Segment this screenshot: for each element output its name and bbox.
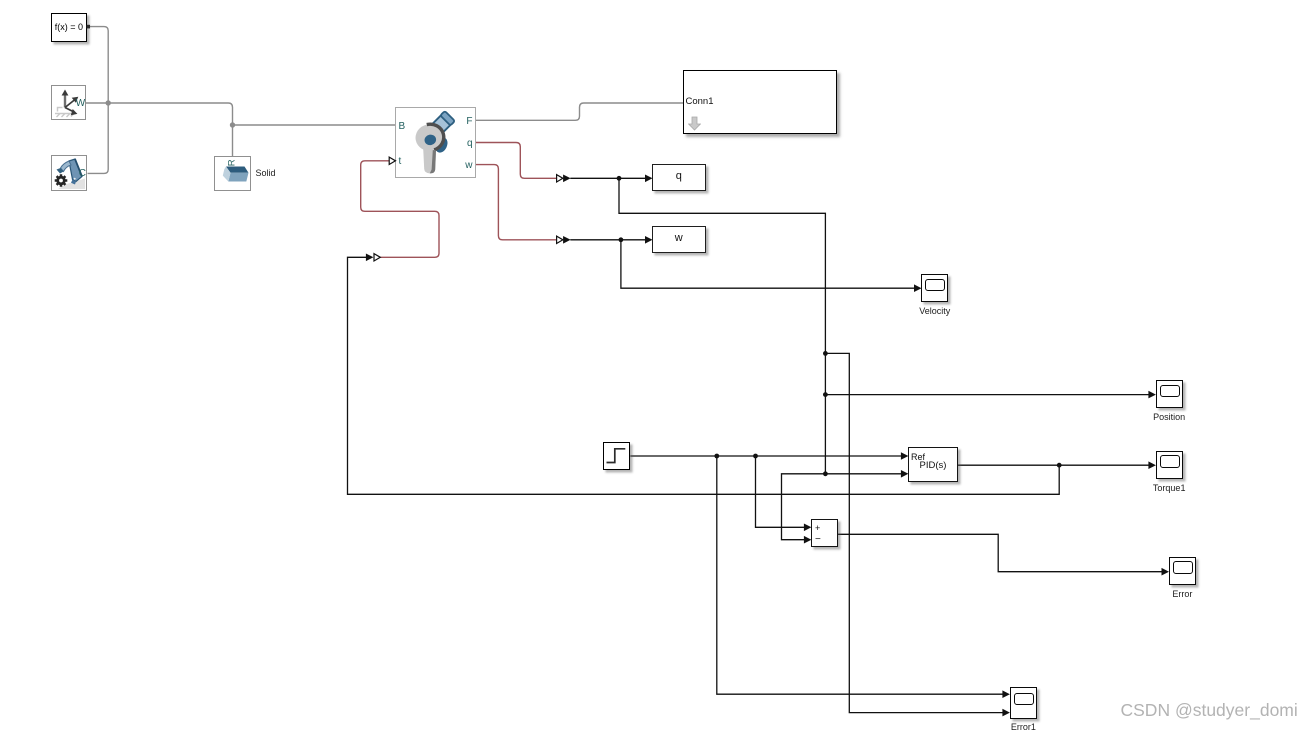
wire: q junction down, right, down the long vertical x825 (619, 178, 825, 474)
port label: W (76, 99, 85, 109)
wire: PID output to Torque1 scope (958, 464, 1150, 466)
junction: gray dot above Solid (230, 122, 235, 127)
label: minus sign (815, 534, 821, 545)
wire: q converter to q goto block (570, 177, 646, 179)
arrowhead: into Velocity scope (914, 284, 922, 292)
label: Torque1 (1153, 483, 1186, 493)
converter: open triangle on w line (PS side) (557, 236, 563, 243)
arrowhead: into PID lower input (901, 470, 909, 478)
wire: sum output to Error scope (838, 534, 1163, 571)
junction: q line dot (617, 176, 622, 181)
block: q goto tag (652, 164, 706, 191)
junction: step line dot 2 (753, 454, 758, 459)
junction: gray dot on world frame line (106, 100, 111, 105)
block: World Frame (51, 85, 86, 120)
wire: solver config to mechanism config vertical (gray physical net) (88, 27, 109, 174)
block: Step source (603, 442, 630, 469)
wire: branch to revolute joint B port (233, 124, 396, 126)
arrowhead: into Error1 lower input (1002, 709, 1010, 717)
arrowhead: PS-to-simulink converter filled arrow on w line (563, 236, 571, 244)
label: Error1 (1011, 722, 1036, 730)
port label: R (rotated) (228, 159, 238, 166)
arrowhead: into q block (645, 175, 653, 183)
label: plus sign (815, 523, 820, 533)
block: Conn1 subsystem (683, 70, 837, 134)
block: PID(s) controller (908, 447, 958, 482)
port label: w (465, 161, 472, 171)
junction: x825 branch dot upper (823, 351, 828, 356)
block: w goto tag (652, 226, 706, 253)
arrowhead: simulink-to-PS converter filled arrow on torque line (366, 253, 374, 261)
icon: gray down arrow (688, 116, 701, 131)
arrowhead: into PID Ref input (901, 452, 909, 460)
port label: q (467, 139, 473, 149)
junction: x825 branch dot to Position (823, 392, 828, 397)
block: Error scope (1169, 557, 1196, 585)
arrowhead: into w block (645, 236, 653, 244)
arrowhead: into sum minus input (804, 536, 812, 544)
label: PID(s) (909, 460, 957, 471)
label: Conn1 port name (686, 96, 714, 107)
wire: red PS torque line from converter to joint t port (361, 161, 439, 257)
block: Torque1 scope (1156, 451, 1183, 479)
label: Position (1153, 412, 1185, 422)
port label: C (79, 169, 86, 179)
block: Position scope (1156, 380, 1183, 408)
wire: world frame W to junction and down to Solid R port (86, 103, 233, 156)
junction: step line dot 1 (714, 454, 719, 459)
block: Error1 scope (two inputs) (1010, 687, 1037, 719)
wire: feedback to PID lower input and sum minus input (782, 474, 903, 540)
label: Error (1172, 589, 1192, 599)
arrowhead: into Error1 upper input (1002, 690, 1010, 698)
label: Velocity (919, 306, 950, 316)
wire: joint w output red PS line to converter (476, 165, 557, 240)
wire: branch to Position scope (825, 394, 1150, 396)
block: Solid (214, 156, 251, 191)
port nub: solver configuration right conserving port (85, 23, 93, 31)
junction: x825 end dot at feedback line (823, 471, 828, 476)
wire: PID output feedback loop to torque converter (348, 257, 1060, 494)
port label: t (399, 157, 402, 167)
label: Solid (255, 168, 275, 178)
port label: F (466, 117, 472, 127)
wire: step output to PID Ref input (630, 455, 903, 457)
wire: step branch down to sum plus input (756, 456, 806, 527)
wire: step branch down to Error1 upper input (717, 456, 1004, 694)
block: Solver Configuration f(x)=0 (51, 13, 87, 42)
wire: w junction down to Velocity scope (621, 240, 916, 288)
port marker: open triangle at joint t input (386, 154, 398, 167)
converter: open triangle on q line (PS side) (557, 175, 563, 182)
junction: PID output branch dot (1057, 463, 1062, 468)
block: Sum (+/-) (811, 519, 838, 547)
watermark: CSDN (1121, 700, 1298, 721)
label: Ref input name (911, 452, 925, 462)
wire: branch right then long drop x849 to Error1 lower input (825, 353, 1004, 712)
arrowhead: into Torque1 scope (1148, 461, 1156, 469)
converter: open triangle on torque line (PS side) (374, 254, 380, 261)
arrowhead: into Position scope (1148, 391, 1156, 399)
wire: w converter to w goto block (570, 239, 646, 241)
block: Revolute Joint (395, 107, 476, 178)
arrowhead: into sum plus input (804, 524, 812, 532)
arrowhead: into Error scope (1162, 568, 1170, 576)
block: Velocity scope (921, 274, 948, 302)
wire: joint q output red PS line to converter (476, 143, 557, 179)
port label: B (399, 122, 406, 132)
junction: w line dot (619, 237, 624, 242)
block: Mechanism Configuration (51, 155, 87, 191)
arrowhead: PS-to-simulink converter filled arrow on q line (563, 175, 571, 183)
wire: joint F port to Conn1 (gray physical net) (476, 103, 683, 120)
